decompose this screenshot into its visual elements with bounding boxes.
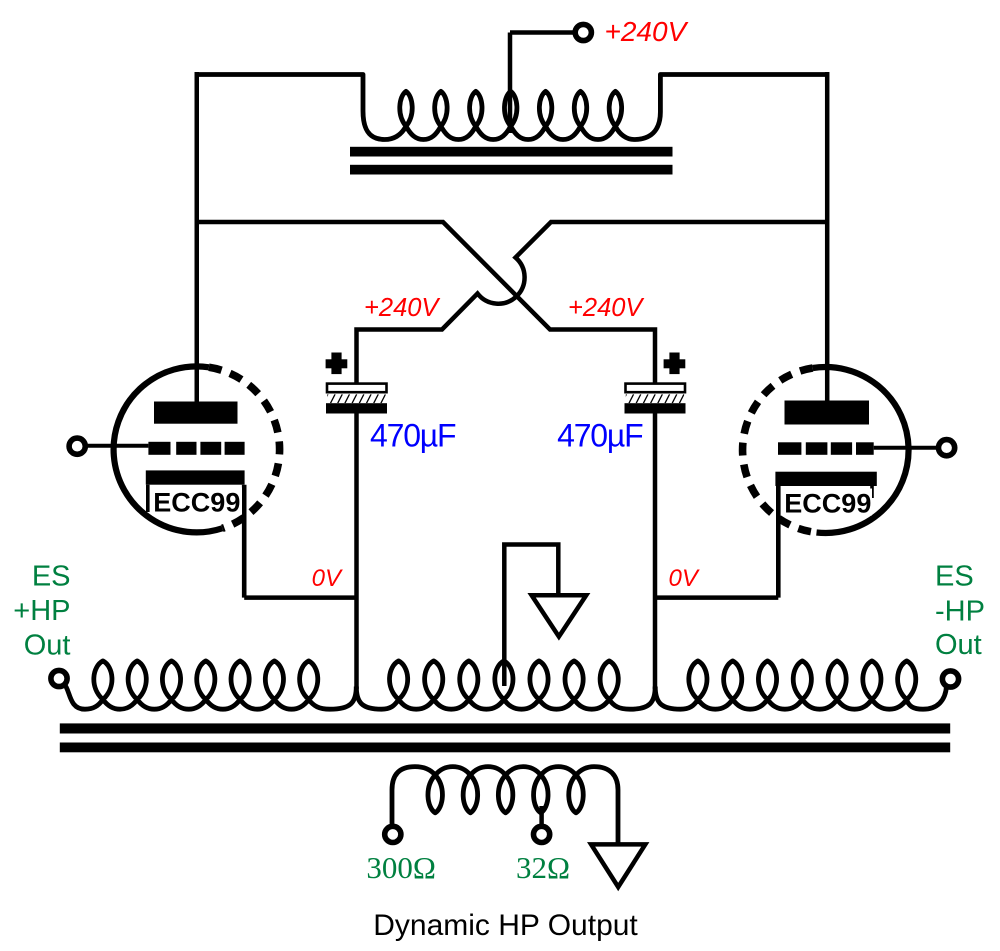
node 32 ohm terminal	[534, 826, 550, 842]
wire V1 cathode to C1 (0V)	[244, 595, 356, 600]
ground symbol (secondary)	[591, 844, 645, 887]
tube V1 ECC99 envelope (left)	[114, 366, 223, 532]
capacitor C2 470uF (right)	[664, 359, 686, 368]
transformer T1 core bars	[350, 147, 673, 157]
node V1 grid input terminal	[69, 438, 85, 454]
ground symbol (center tap)	[532, 595, 587, 636]
svg-text:ECC99: ECC99	[153, 488, 240, 518]
svg-text:+240V: +240V	[605, 16, 689, 47]
inductor L1 top transformer primary winding	[197, 75, 827, 140]
V2 cathode bracket	[870, 486, 874, 498]
svg-text:32Ω: 32Ω	[516, 850, 570, 885]
inductor L2 (right section)	[655, 661, 946, 709]
V1 label box	[151, 488, 242, 515]
wire right rail to left capacitor (hops over)	[357, 222, 828, 385]
wire left rail to right capacitor (straight diagonal)	[197, 222, 655, 385]
V2 label box	[781, 489, 872, 516]
V2 plate	[785, 401, 870, 425]
V2 cathode	[775, 472, 876, 486]
wire V1 cathode lead down	[242, 485, 247, 598]
wire center-tap hat to ground	[504, 545, 558, 687]
svg-text:ES: ES	[935, 561, 974, 593]
wire 32 ohm tap	[539, 806, 544, 827]
svg-text:0V: 0V	[669, 565, 700, 592]
node ES -HP Out terminal	[942, 671, 958, 687]
wire V2 cathode to C2 (0V)	[655, 595, 778, 600]
svg-text:+240V: +240V	[364, 294, 440, 322]
svg-text:+HP: +HP	[13, 595, 70, 627]
svg-text:-HP: -HP	[935, 596, 985, 628]
inductor L3 output transformer secondary	[392, 767, 618, 843]
V1 cathode bracket	[146, 485, 150, 512]
V1 grid (dashed)	[148, 442, 170, 455]
svg-text:Out: Out	[935, 629, 982, 661]
svg-text:ECC99: ECC99	[784, 489, 871, 519]
svg-text:470µF: 470µF	[370, 418, 456, 454]
V1 plate	[154, 402, 238, 424]
svg-text:0V: 0V	[312, 565, 343, 592]
transformer T2 core bars	[60, 723, 950, 733]
wire left rail to V1 plate	[195, 72, 200, 403]
svg-text:ES: ES	[32, 560, 71, 592]
inductor L2 (middle section)	[356, 661, 655, 709]
svg-text:Out: Out	[24, 629, 71, 661]
svg-text:+240V: +240V	[568, 294, 644, 322]
V1 cathode	[146, 470, 245, 484]
wire C2 bottom lead to output transformer junction	[653, 413, 658, 689]
wire right rail to V2 plate	[825, 72, 830, 403]
svg-text:470µF: 470µF	[557, 418, 643, 454]
V2 grid (dashed)	[778, 442, 801, 455]
node 300 ohm terminal	[385, 826, 401, 842]
wire terminal to center tap	[510, 30, 575, 35]
svg-text:Dynamic HP Output: Dynamic HP Output	[373, 909, 638, 942]
wire C1 bottom lead to output transformer junction	[354, 413, 359, 689]
V2 grid lead wire	[874, 446, 939, 450]
node V2 grid input terminal	[939, 440, 955, 456]
node ES +HP Out terminal	[51, 670, 67, 686]
wire center tap vertical	[508, 33, 513, 134]
V1 grid lead wire	[85, 444, 149, 448]
wire V2 cathode lead down	[776, 486, 781, 598]
svg-text:300Ω: 300Ω	[366, 850, 436, 885]
inductor L2 output transformer primary (left section)	[64, 661, 356, 709]
capacitor C1 470uF (left)	[326, 359, 348, 368]
node +240V supply terminal	[575, 24, 591, 40]
tube V2 ECC99 envelope (right)	[813, 367, 909, 533]
